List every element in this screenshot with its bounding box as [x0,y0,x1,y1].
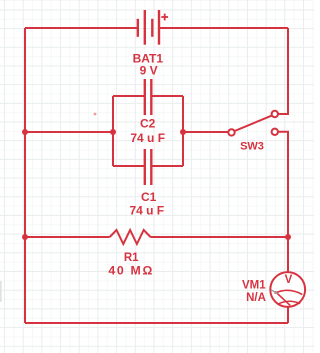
svg-text:9 V: 9 V [140,64,158,78]
wire bottom rail [25,322,288,324]
svg-text:74 u F: 74 u F [130,131,165,145]
svg-text:SW3: SW3 [240,140,264,152]
wire R1 right segment [151,236,289,238]
wire cap box top rail right of C2 [152,95,183,97]
stray mark [94,113,97,116]
switch SW3 [228,111,278,136]
voltmeter needle gray tip [271,290,277,294]
svg-text:40 MΩ: 40 MΩ [108,263,154,277]
capacitor C2 plates [145,79,152,115]
wire cap box top rail left of C2 [113,95,144,97]
resistor R1 [110,230,151,244]
voltmeter VM1 [270,272,305,307]
wire R1 left segment [25,236,110,238]
svg-text:74 u F: 74 u F [129,204,164,218]
svg-text:C2: C2 [140,116,156,130]
junction node at left rail / R1 wire [22,234,28,240]
svg-text:V: V [285,274,293,286]
wire cap box bottom rail right of C1 [152,165,183,167]
wire right rail upper to switch top contact [278,28,288,114]
capacitor C1 plates [145,149,152,185]
wire top-right from battery to right rail corner [159,27,288,29]
battery BAT1 [138,10,159,45]
svg-text:C1: C1 [141,190,157,204]
screen edge artifact [0,281,2,302]
svg-text:N/A: N/A [246,292,266,304]
wire voltmeter bottom [287,307,289,323]
junction node at cap box left [110,129,116,135]
wire cap box bottom rail left of C1 [113,165,144,167]
wire from left rail to cap box left node [25,131,113,133]
svg-text:VM1: VM1 [242,279,266,291]
junction node at right rail / R1 wire [285,234,291,240]
wire switch bottom contact to right rail lower [278,132,288,272]
wire from cap box right node to switch common [183,131,228,133]
svg-text:R1: R1 [124,252,139,264]
junction node at left rail / cap wire [22,129,28,135]
wire top-left from left rail to battery [25,27,138,29]
wire cap box left edge [112,96,114,166]
wire left rail [24,28,26,323]
junction node at cap box right [180,129,186,135]
battery plus sign [161,14,168,21]
wire cap box right edge [182,96,184,166]
